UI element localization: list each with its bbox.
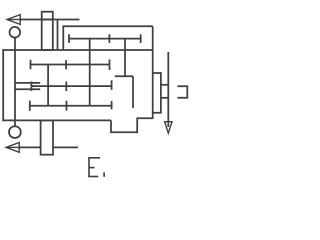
gear tick S1 left: [68, 34, 70, 43]
gear tick S2 right: [109, 59, 111, 70]
input arrow top shaft line: [19, 19, 80, 21]
mesh vertical S2 down: [47, 65, 49, 106]
mesh vertical S1 to S3: [124, 39, 126, 77]
housing bottom edge left: [2, 119, 111, 121]
input shaft vertical into box: [57, 20, 59, 51]
shaft S3 stub: [115, 75, 133, 77]
label E bottom arm: [88, 176, 98, 178]
top gear box: [63, 26, 152, 50]
sleeve top line S4: [15, 82, 40, 84]
housing outer box left edge: [2, 49, 4, 121]
gear tick S4 right: [111, 80, 113, 90]
label E top arm: [88, 157, 100, 159]
mesh vertical S3 down: [132, 76, 134, 108]
coupling rung top: [161, 84, 168, 86]
gear tick S5 mid: [66, 101, 68, 111]
output vertical line with down arrow: [167, 52, 169, 127]
gear tick S4 sleeve: [30, 82, 32, 92]
pto rectangle bottom: [41, 120, 53, 154]
label E middle arm: [89, 167, 95, 169]
coupling bracket right: [178, 86, 188, 98]
coupling circle C1 top-left: [10, 27, 21, 38]
bottom arrow head: [6, 143, 19, 153]
housing right edge: [152, 26, 154, 119]
bearing rectangle top: [42, 12, 53, 50]
coupling circle C2 bottom-left: [9, 126, 21, 138]
shaft S1 top: [69, 38, 141, 40]
sleeve bottom line S4: [15, 88, 40, 90]
coupling rung bottom: [161, 97, 168, 99]
housing bottom step: [111, 118, 153, 132]
gear tick S1 mid: [108, 34, 110, 43]
gear tick S5 left: [29, 101, 31, 111]
gear tick S2 left: [30, 60, 32, 70]
shaft S5 bottom: [30, 105, 112, 107]
housing top edge: [2, 49, 152, 51]
vertical shaft left wall: [14, 38, 16, 127]
output arrowhead down: [165, 122, 172, 134]
gear tick S5 right: [111, 101, 113, 110]
gear tick S1 right: [140, 34, 142, 43]
output bearing housing right: [153, 73, 161, 113]
shaft S4 center line: [31, 85, 111, 87]
wire arrow line through bearing: [42, 19, 53, 21]
mesh vertical S1 to S5: [89, 39, 91, 106]
shaft S2: [31, 64, 110, 66]
gear tick S4 mid: [65, 82, 67, 91]
bottom arrow line left part: [18, 146, 41, 148]
label E stroke vertical: [88, 158, 90, 177]
bottom arrow line right part: [53, 146, 78, 148]
gear tick S2 mid: [65, 60, 67, 69]
label comma: [103, 172, 105, 177]
input arrow top head: [7, 15, 20, 25]
